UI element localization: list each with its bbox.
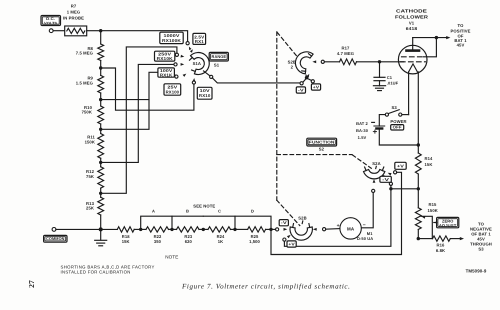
tube screen grid row [402,56,424,58]
node S2A wiper contact [373,179,376,183]
wire chain bottom [100,215,102,229]
svg-text:IN PROBE: IN PROBE [63,16,84,21]
resistor R18 15K [117,227,134,232]
label box +V (S2B top) [311,84,320,90]
svg-text:D-50 UA: D-50 UA [357,236,373,241]
tube plate [407,49,420,52]
node 10V contact [192,81,195,84]
wire filament right leg [417,72,419,145]
shorting bar B [172,215,203,217]
wire S2A wiper to meter [361,193,373,228]
label box +V (S2A) [395,162,406,169]
meter M1 D-50UA [340,218,361,239]
svg-text:6418: 6418 [406,26,418,31]
label box +V (S2B bottom) [287,241,296,247]
label box 250V RX10K [155,51,175,61]
svg-text:FUNCTION: FUNCTION [309,139,335,144]
resistor R23 620 [177,227,200,232]
svg-text:.01UF: .01UF [387,81,399,86]
label box 2.5V RX1 [193,33,206,44]
battery BAT2 BA-30 1.5V [379,115,385,126]
switch S2B bottom rotor [290,227,312,240]
resistor R25 1500 [248,227,266,232]
label box -V (S2B top) [296,87,305,93]
svg-text:R14: R14 [425,156,434,161]
svg-text:B: B [186,209,189,214]
svg-text:S1: S1 [214,62,220,67]
svg-text:C1: C1 [387,75,393,80]
node C post [202,228,205,231]
svg-text:1 MEG: 1 MEG [67,10,81,15]
label box 10V RX10 [197,87,212,99]
wire filament left leg [408,72,410,115]
wire -V rail to S2B bottom +V [284,189,391,247]
svg-text:V1: V1 [409,20,415,25]
svg-text:S2A: S2A [372,161,380,166]
svg-text:BAT 2: BAT 2 [356,121,368,126]
node tap1 [100,61,102,76]
wire R15 bottom [417,230,419,239]
svg-text:45V: 45V [457,43,465,48]
wire R16 to battery negative [450,238,461,240]
svg-text:+V: +V [288,241,295,246]
capacitor C1 .01UF [379,62,381,78]
node tap3 [100,124,102,134]
wire tap4 to 100V contact riser [101,64,174,162]
svg-text:620: 620 [185,239,193,244]
node S2B bottom input contact [276,228,279,231]
node S2A +V contact [388,173,392,176]
svg-text:15K: 15K [122,239,130,244]
node 250V contact [175,53,178,56]
svg-text:150K: 150K [85,139,95,144]
svg-text:CATHODE: CATHODE [396,8,427,13]
wire common bus left [56,228,101,230]
svg-text:RANGE: RANGE [212,54,227,59]
node chain top junction [99,29,102,32]
svg-text:1,500: 1,500 [249,239,260,244]
node 100V contact [174,63,177,66]
node bus output junction [269,228,272,231]
label box COMMON [44,235,67,242]
label box -V (S2A) [380,176,391,182]
terminal D.C. VOLTS label box [41,16,61,26]
switch S2B top rotor [295,52,313,74]
svg-text:TO: TO [458,23,465,28]
wire R7 to chain top [87,30,101,32]
svg-text:MA: MA [347,226,355,231]
svg-text:+V: +V [397,163,404,168]
svg-text:SEE NOTE: SEE NOTE [193,204,215,209]
svg-text:R17: R17 [342,46,351,51]
node tap4 [100,158,102,167]
svg-text:1.5 MEG: 1.5 MEG [76,80,93,85]
wire R17 to tube grid [357,61,404,63]
svg-text:RX100: RX100 [166,90,180,95]
wire bus to R18 [101,228,118,230]
resistor R12 75K [98,167,104,188]
label box -V (S2B bottom) [279,220,288,226]
svg-text:-V: -V [281,220,287,225]
resistor R24 1K [208,227,231,232]
svg-text:7.5 MEG: 7.5 MEG [76,51,93,56]
label box 100V RX1K [158,68,175,77]
node COMMON terminal [52,228,56,232]
wire tap5 to 250V contact riser [101,47,177,193]
wire tap1 to 10V contact [101,68,194,110]
wire plate to B+ [413,37,448,39]
label box 1000V RX100K [160,32,183,43]
node D post [233,228,236,231]
svg-text:RX10K: RX10K [157,56,173,61]
resistor R22 350 [146,227,169,232]
svg-text:R7: R7 [71,3,77,8]
svg-text:TM5090-9: TM5090-9 [466,268,487,273]
svg-text:25K: 25K [86,206,94,211]
wire tap2 to 25V contact [101,72,176,99]
svg-text:-V: -V [298,87,304,92]
svg-text:INSTALLED FOR CALIBRATION: INSTALLED FOR CALIBRATION [61,270,131,275]
svg-text:R15: R15 [429,202,438,207]
resistor R7 (1 MEG in probe, boxed) [65,26,87,36]
shorting bar C [203,216,235,229]
svg-text:+V: +V [313,84,320,89]
svg-text:FOLLOWER: FOLLOWER [395,14,429,19]
svg-text:RX100K: RX100K [162,38,181,43]
svg-text:2: 2 [291,65,294,70]
wire R18 to A post [134,228,141,230]
svg-text:75K: 75K [86,174,94,179]
svg-text:S2: S2 [319,147,325,152]
tube filament [409,64,418,72]
wire chain top [100,31,102,44]
svg-text:NOTE: NOTE [165,255,178,260]
node S2B top output contact [312,60,316,63]
svg-text:350: 350 [154,239,162,244]
pot wiper arm [421,216,425,219]
wire S2A -V to divider junction [390,185,392,188]
wire S1A wiper output [204,71,210,76]
node S2B top junction [305,76,308,79]
resistor R16 6.8K [433,236,451,241]
svg-text:BA-30: BA-30 [356,128,369,133]
node 2.5V contact arrows [189,47,192,51]
node 25V contact [175,75,178,78]
svg-text:RX1: RX1 [195,39,205,44]
svg-text:C: C [218,209,221,214]
resistor R17 4.7 MEG [340,59,357,65]
tube control grid row [401,61,426,63]
resistor R11 150K [98,134,104,159]
label box FUNCTION S2 [307,138,337,146]
dashed linkage to S2B top [277,32,299,58]
node S2B top +V contact [311,80,314,83]
svg-text:D: D [251,209,254,214]
svg-text:15K: 15K [425,162,433,167]
svg-text:POWER: POWER [390,119,406,124]
dashed linkage horizontal [277,154,352,156]
switch S2A rotor [364,170,385,179]
svg-text:S3: S3 [392,105,398,110]
wire S2B to R17 [324,61,339,63]
svg-text:27: 27 [27,280,36,288]
wire tap3 stub [101,100,149,130]
label box 25V RX100 [164,84,181,95]
svg-text:RX1K: RX1K [160,73,173,78]
label box RANGE S1 [209,52,228,61]
wire R14 to junction [417,174,419,208]
dashed linkage to S2A [353,155,372,168]
svg-text:−: − [363,223,366,229]
node 1000V contact [186,42,189,45]
svg-text:A: A [152,209,155,214]
svg-text:COMMON: COMMON [46,237,65,241]
resistor R15 150K potentiometer [415,208,421,230]
ground at C1 [373,85,385,87]
svg-text:150K: 150K [428,208,438,213]
svg-text:S3: S3 [478,247,484,252]
wire screen tie [424,38,437,57]
wire top feed to 1000V contact [101,31,188,42]
node input terminal [49,29,53,33]
node S2B top input contact [300,82,303,85]
svg-text:S2B: S2B [298,216,306,221]
dashed linkage vertical (FUNCTION S2) [276,32,278,200]
svg-text:VOLTS: VOLTS [44,21,57,25]
resistor R13 25K [98,197,104,215]
wire input to R7 [53,30,65,32]
svg-text:OFF: OFF [393,125,402,130]
node S2A -V contact [382,175,386,179]
dashed linkage to S2B bottom [277,200,300,225]
resistor R9 1.5 MEG [98,75,104,93]
svg-text:Figure 7. Voltmeter circuit,: Figure 7. Voltmeter circuit, simplified … [181,283,350,291]
resistor R10 750K [98,106,104,124]
ground at chain bottom [100,229,102,240]
svg-text:1K: 1K [218,239,223,244]
resistor R14 15K [417,145,419,153]
shorting bar A [141,216,172,229]
label box ZERO ADJUST [437,217,459,227]
svg-text:-V: -V [382,177,389,182]
wire battery to R14 node [379,129,418,146]
resistor R8 7.5 MEG [98,44,104,61]
wire S2A +V to bottom rail [271,172,402,254]
wire S2B bottom to meter + [326,228,340,231]
wire to R16 [418,238,432,240]
svg-text:R16: R16 [437,243,446,248]
svg-text:6.8K: 6.8K [436,248,445,253]
svg-text:1.5V: 1.5V [358,135,367,140]
node tap2 [100,93,102,106]
shorting bar D [235,216,271,229]
node S2B bottom +V contact [283,238,286,241]
svg-text:750K: 750K [82,110,92,115]
node B post [170,228,173,231]
svg-text:RX10: RX10 [199,93,211,98]
node S2B bottom output contact [313,228,317,231]
svg-text:S1A: S1A [193,61,201,66]
node tap5 [100,188,102,197]
svg-text:4.7 MEG: 4.7 MEG [337,51,354,56]
svg-text:ADJUST: ADJUST [439,223,457,228]
switch S1A rotor [191,52,210,74]
tube V1 6418 envelope [398,45,427,74]
